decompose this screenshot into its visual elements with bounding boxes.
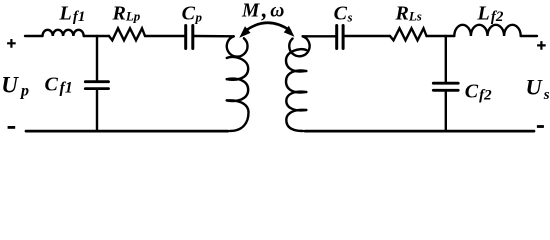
- capacitor Cf2 top lead: [445, 36, 447, 82]
- primary coil Lp loop 3: [227, 79, 248, 101]
- secondary coil Ls bottom loop to rail: [286, 110, 306, 131]
- capacitor Cf1 top lead: [96, 36, 98, 80]
- bottom rail secondary: [305, 130, 534, 133]
- inductor Lf2: [454, 25, 520, 36]
- svg-text:RLp: RLp: [112, 2, 141, 24]
- secondary coil Ls loop 1: [289, 36, 309, 56]
- wire secondary coil to Cs: [303, 35, 335, 37]
- svg-text:Us: Us: [526, 75, 550, 103]
- wire Cs to RLs: [345, 35, 390, 37]
- svg-text:Up: Up: [1, 73, 29, 100]
- plus sign left: [7, 39, 16, 48]
- inductor Lf1: [43, 30, 84, 36]
- svg-text:ω: ω: [270, 0, 284, 21]
- primary coil Lp bottom loop to rail: [227, 100, 249, 131]
- capacitor Cf1: [85, 82, 108, 89]
- wire left terminal to Lf1: [25, 35, 43, 37]
- resistor RLs: [390, 28, 427, 40]
- coupling arrowhead left: [239, 26, 250, 38]
- svg-text:Cp: Cp: [182, 2, 203, 24]
- svg-text:Cf2: Cf2: [465, 81, 492, 104]
- svg-text:RLs: RLs: [395, 2, 422, 24]
- capacitor Cf1 bottom lead: [96, 90, 98, 131]
- capacitor Cs: [337, 26, 343, 49]
- wire RLs to Lf2 with node at Cf2 branch: [427, 35, 455, 37]
- wire Lf2 to right terminal: [521, 35, 537, 37]
- secondary coil Ls loop 2: [286, 49, 306, 71]
- bottom rail primary: [26, 130, 228, 133]
- mutual coupling arrow arc: [245, 23, 291, 32]
- plus sign right: [537, 41, 546, 50]
- wire Cp to primary coil: [194, 35, 233, 38]
- svg-text:Lf2: Lf2: [477, 2, 504, 25]
- primary coil Lp loop 2: [227, 57, 248, 80]
- svg-text:,: ,: [261, 0, 268, 22]
- secondary coil Ls loop 3: [286, 70, 306, 92]
- capacitor Cp: [186, 26, 193, 49]
- resistor RLp: [109, 28, 145, 40]
- wire RLp to Cp: [145, 35, 184, 37]
- svg-text:Cs: Cs: [334, 2, 353, 24]
- coupling arrowhead right: [284, 26, 295, 37]
- svg-text:Cf1: Cf1: [45, 73, 73, 96]
- svg-text:Lf1: Lf1: [59, 2, 86, 25]
- minus sign left: [8, 126, 16, 129]
- capacitor Cf2: [433, 83, 458, 90]
- svg-text:M: M: [241, 0, 260, 21]
- wire Lf1 to RLp with node at Cf1 branch: [84, 35, 109, 37]
- capacitor Cf2 bottom lead: [445, 92, 447, 131]
- primary coil Lp loop 1: [227, 36, 248, 56]
- minus sign right: [537, 125, 544, 128]
- secondary coil Ls loop 4: [286, 92, 306, 111]
